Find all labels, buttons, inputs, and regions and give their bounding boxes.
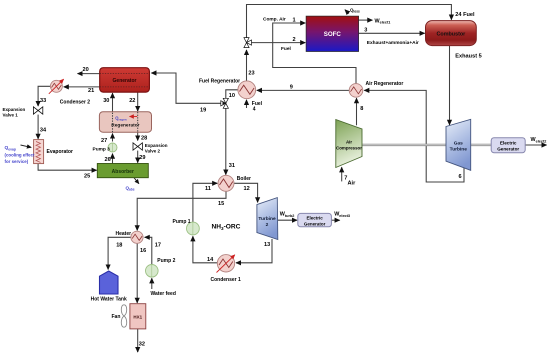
svg-text:Pump 1: Pump 1 xyxy=(173,219,191,225)
svg-text:Gas: Gas xyxy=(454,140,463,146)
svg-text:Valve 1: Valve 1 xyxy=(3,112,19,117)
wire 27: pump 3 to regenerator xyxy=(112,134,114,142)
pump 3 xyxy=(93,143,118,153)
wire W_elect1 xyxy=(359,19,373,21)
svg-text:Expansion: Expansion xyxy=(145,143,168,148)
svg-text:22: 22 xyxy=(129,98,135,104)
hot water tank xyxy=(91,271,127,303)
wire 17: pump 2 to heater xyxy=(145,237,152,264)
svg-text:Electric: Electric xyxy=(306,216,323,221)
boiler xyxy=(218,175,251,191)
wire W_turb2: turbine 2 to electric generator xyxy=(277,219,297,221)
wire fuel 2: valve to SOFC xyxy=(250,42,305,44)
wire 14: condenser 1 to pump 1 xyxy=(193,236,217,262)
wire fuel 4 into fuel regenerator xyxy=(246,100,248,108)
svg-text:Hot Water Tank: Hot Water Tank xyxy=(91,297,127,303)
shaft compressor-turbine xyxy=(362,144,446,146)
svg-text:Valve 2: Valve 2 xyxy=(145,149,161,154)
Q_evap label xyxy=(5,145,36,164)
svg-text:12: 12 xyxy=(244,186,250,192)
svg-text:NH3-ORC: NH3-ORC xyxy=(212,224,241,231)
wire 23: fuel regenerator up to valve xyxy=(246,50,248,81)
svg-text:10: 10 xyxy=(229,93,235,99)
wire 19-20 dashed through generator xyxy=(100,73,150,75)
HX1 xyxy=(130,304,146,329)
svg-text:Absorber: Absorber xyxy=(112,169,134,175)
svg-text:Regenerator: Regenerator xyxy=(111,123,139,129)
svg-text:Air: Air xyxy=(348,181,357,187)
svg-text:17: 17 xyxy=(155,243,161,249)
wire Q_abs arrow xyxy=(133,176,139,184)
svg-text:13: 13 xyxy=(264,242,270,248)
svg-text:Pump 3: Pump 3 xyxy=(93,147,111,153)
svg-text:Air Regenerator: Air Regenerator xyxy=(366,81,404,87)
wire exhaust 5: combustor to gas turbine xyxy=(449,46,451,125)
wire 21: generator to condenser 2 xyxy=(64,86,100,88)
svg-text:33: 33 xyxy=(40,98,46,104)
expansion valve 1 xyxy=(3,107,43,118)
svg-text:28: 28 xyxy=(141,136,147,142)
expansion valve 2 xyxy=(133,143,168,154)
svg-text:SOFC: SOFC xyxy=(324,31,342,38)
wire 15: boiler to heater xyxy=(137,191,226,230)
fuel regenerator xyxy=(199,78,256,98)
wire 22: generator to regenerator xyxy=(137,92,139,111)
gas turbine xyxy=(446,119,471,170)
svg-text:34: 34 xyxy=(40,128,47,134)
svg-text:for service): for service) xyxy=(5,159,29,164)
wire 22 dashed through regenerator xyxy=(137,112,139,132)
wire 25: evaporator to absorber xyxy=(38,164,97,171)
svg-text:Expansion: Expansion xyxy=(3,107,26,112)
svg-text:Fuel: Fuel xyxy=(281,46,291,52)
SOFC xyxy=(306,16,359,51)
wire 34: valve 1 to evaporator xyxy=(37,115,39,139)
svg-text:Evaporator: Evaporator xyxy=(47,149,73,155)
condenser 2 xyxy=(49,79,91,105)
svg-text:18: 18 xyxy=(116,243,122,249)
wire Q_loss xyxy=(345,10,349,14)
wire 6: gas turbine to air regenerator xyxy=(364,90,464,182)
svg-text:Electric: Electric xyxy=(500,141,517,146)
wire 28: regenerator to expansion valve 2 xyxy=(137,132,139,140)
condenser 1 xyxy=(211,255,242,283)
svg-text:Boiler: Boiler xyxy=(237,176,251,182)
wire 29: valve 2 to absorber xyxy=(137,151,139,163)
wire 13: turbine 2 to condenser 1 xyxy=(236,239,272,263)
electric generator (gas turbine) xyxy=(491,138,525,153)
svg-text:9: 9 xyxy=(290,85,293,91)
svg-text:4: 4 xyxy=(253,107,256,113)
svg-text:19: 19 xyxy=(200,107,206,113)
svg-text:1: 1 xyxy=(293,18,296,24)
air compressor xyxy=(336,120,362,168)
wire 30 dashed through regenerator xyxy=(112,112,114,132)
svg-text:Generator: Generator xyxy=(113,78,137,84)
wire Q_evap arrow into evaporator xyxy=(21,145,32,147)
wire 11: pump 1 to boiler xyxy=(193,183,217,222)
svg-text:Pump 2: Pump 2 xyxy=(157,258,175,264)
wire 31: valve 10 down to boiler xyxy=(225,108,227,174)
svg-text:31: 31 xyxy=(229,163,235,169)
wire 21 dashed through generator xyxy=(100,86,150,88)
svg-text:Fuel Regenerator: Fuel Regenerator xyxy=(199,78,240,84)
svg-text:2: 2 xyxy=(266,222,269,228)
svg-text:Compressor: Compressor xyxy=(336,146,362,151)
pump 1 xyxy=(173,219,200,235)
svg-text:30: 30 xyxy=(103,98,109,104)
wire 7 air in xyxy=(341,167,343,181)
generator (absorption) xyxy=(100,68,150,92)
svg-text:Turbine: Turbine xyxy=(450,147,468,153)
svg-text:(cooling effect: (cooling effect xyxy=(5,153,36,158)
Q_regen label + red arrow xyxy=(115,116,137,122)
absorber xyxy=(97,164,148,178)
wire 30: regenerator to generator xyxy=(112,93,114,112)
svg-text:Condenser 2: Condenser 2 xyxy=(60,100,91,106)
wire 16: heater to HX1 xyxy=(136,243,138,302)
svg-text:Air: Air xyxy=(346,140,352,145)
evaporator xyxy=(34,140,73,164)
svg-text:20: 20 xyxy=(83,67,89,73)
wire 3: SOFC to combustor xyxy=(359,32,425,34)
svg-text:Heater: Heater xyxy=(116,231,132,237)
svg-text:3: 3 xyxy=(364,28,367,34)
svg-text:14: 14 xyxy=(207,257,214,263)
wire 26: absorber to pump 3 xyxy=(112,154,114,164)
wire 33: condenser 2 to expansion valve 1 xyxy=(38,86,50,106)
svg-text:15: 15 xyxy=(218,201,224,207)
svg-text:Combustor: Combustor xyxy=(437,31,467,37)
wire fuel regen to valve 10 xyxy=(226,90,238,98)
svg-text:32: 32 xyxy=(139,341,145,347)
svg-text:21: 21 xyxy=(88,88,94,94)
turbine 2 xyxy=(257,198,278,240)
fan xyxy=(112,305,127,327)
electric generator (turbine 2) xyxy=(298,213,332,226)
svg-text:Generator: Generator xyxy=(304,221,326,226)
wire comp air 1: air regenerator to SOFC xyxy=(273,23,356,84)
shaft turbine-generator xyxy=(471,144,492,146)
svg-text:Turbine: Turbine xyxy=(258,216,276,222)
svg-text:29: 29 xyxy=(139,155,145,161)
svg-text:Fan: Fan xyxy=(112,314,121,320)
svg-text:25: 25 xyxy=(84,174,90,180)
svg-text:Exhaust 5: Exhaust 5 xyxy=(455,54,481,60)
svg-text:23: 23 xyxy=(248,71,254,77)
wire 8: compressor to air regenerator xyxy=(356,98,358,125)
svg-text:Comp. Air: Comp. Air xyxy=(263,16,286,22)
air regenerator xyxy=(349,81,403,97)
svg-text:Water feed: Water feed xyxy=(151,291,176,297)
regenerator xyxy=(99,112,151,133)
wire 9: air regenerator to fuel regenerator xyxy=(257,89,349,91)
valve V1 (3-way near SOFC) xyxy=(244,38,252,48)
wire 12: boiler to turbine 2 xyxy=(234,183,258,202)
combustor xyxy=(426,21,477,46)
svg-text:2: 2 xyxy=(293,37,296,43)
wire water feed to pump 2 xyxy=(151,278,153,289)
heater xyxy=(116,231,144,244)
svg-text:6: 6 xyxy=(459,174,462,180)
valve 10 (3-way) xyxy=(221,98,229,108)
svg-text:16: 16 xyxy=(140,248,146,254)
wire W_elect3 out xyxy=(331,219,339,221)
svg-text:Generator: Generator xyxy=(497,147,519,152)
svg-text:26: 26 xyxy=(105,157,111,163)
svg-text:HX1: HX1 xyxy=(133,315,142,320)
wire W_elect2 out xyxy=(525,144,546,146)
svg-text:24 Fuel: 24 Fuel xyxy=(455,12,475,18)
pump 2 xyxy=(146,258,176,277)
svg-text:Exhaust+ammonia+Air: Exhaust+ammonia+Air xyxy=(367,40,419,46)
wire 20: generator exhaust out xyxy=(78,73,100,75)
svg-text:27: 27 xyxy=(101,138,107,144)
wire 18: heater to hot water tank xyxy=(108,237,131,269)
wire 19: valve 10 to generator xyxy=(151,73,220,103)
svg-text:Condenser 1: Condenser 1 xyxy=(211,277,242,283)
svg-text:8: 8 xyxy=(360,106,363,112)
svg-text:11: 11 xyxy=(205,186,211,192)
wire 24 fuel: valve to combustor top xyxy=(247,5,452,39)
wire 32: HX1 out xyxy=(137,329,139,352)
